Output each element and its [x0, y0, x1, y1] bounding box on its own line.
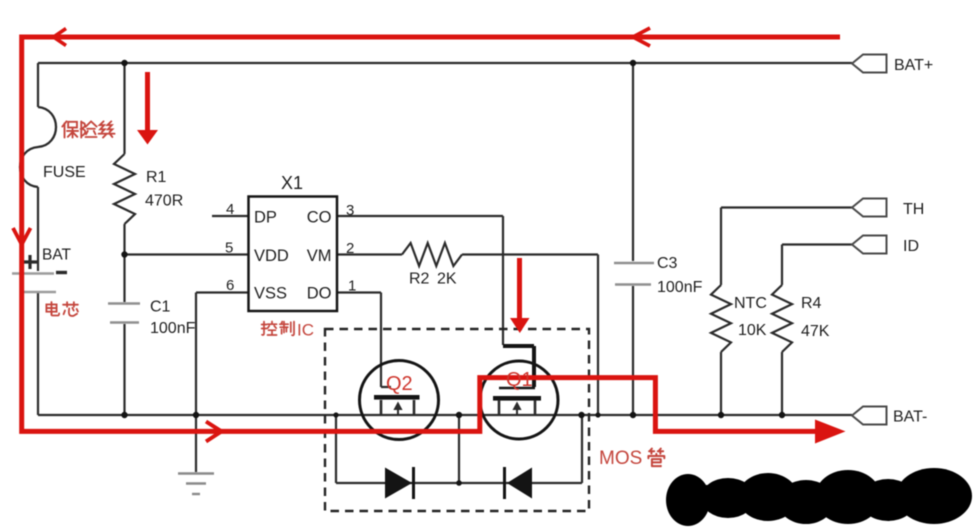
wire ID line — [782, 245, 852, 286]
wire DO pin1 to Q2 gate — [337, 293, 391, 388]
wire bottom rail BAT- — [38, 414, 852, 416]
svg-text:47K: 47K — [801, 323, 830, 340]
svg-text:6: 6 — [226, 277, 234, 294]
fuse F1 — [20, 107, 56, 187]
svg-text:ID: ID — [903, 238, 919, 255]
CJK char Xian (of 保险丝) — [81, 121, 96, 137]
svg-text:2: 2 — [346, 240, 354, 257]
svg-text:X1: X1 — [281, 173, 303, 193]
CJK char Bao (of 保险丝) — [62, 121, 78, 137]
transistor Q1 internals — [493, 388, 541, 416]
transistor Q1 circle — [480, 361, 558, 439]
resistor R1 — [114, 154, 135, 224]
svg-text:C1: C1 — [150, 299, 171, 316]
svg-text:BAT+: BAT+ — [894, 57, 933, 74]
svg-text:3: 3 — [346, 202, 354, 219]
svg-text:TH: TH — [903, 201, 924, 218]
wire diode bridge left branch — [335, 415, 337, 483]
wire DP pin4 stub — [212, 215, 248, 217]
wire C1 bottom lead — [123, 324, 125, 415]
resistor R4 — [772, 285, 792, 352]
op-amp / control IC U1 box X1 — [249, 197, 338, 312]
wire R2 to VM vertical — [462, 255, 598, 416]
transistor Q2 internals — [374, 395, 420, 416]
svg-text:5: 5 — [225, 240, 233, 257]
red chevron arrow top-mid — [633, 28, 650, 46]
svg-text:10K: 10K — [738, 322, 767, 339]
wire VSS pin6 — [196, 293, 248, 473]
svg-text:Q2: Q2 — [386, 373, 413, 395]
wire top rail BAT+ — [38, 62, 852, 64]
CJK char Xin (of 电芯) — [63, 302, 78, 316]
CJK char Kong (of 控制IC) — [262, 322, 277, 336]
wire VDD pin5 — [125, 253, 249, 255]
CJK char Guan (of MOS管) — [648, 449, 664, 467]
svg-text:BAT-: BAT- — [893, 409, 927, 426]
wire VM pin2 to R2 — [337, 253, 402, 255]
svg-text:470R: 470R — [145, 193, 183, 210]
battery plus sign — [23, 255, 37, 269]
capacitor C3 — [614, 263, 654, 285]
CJK char Zhi (of 控制IC) — [280, 322, 294, 336]
battery minus sign — [56, 271, 67, 274]
svg-text:FUSE: FUSE — [43, 164, 86, 181]
connector ID — [852, 236, 887, 254]
svg-text:R2: R2 — [409, 271, 430, 288]
wire NTC bottom — [720, 352, 722, 415]
svg-text:100nF: 100nF — [657, 279, 703, 296]
svg-text:Q1: Q1 — [506, 369, 533, 391]
diode D1 (under Q1) — [505, 467, 533, 499]
capacitor C1 — [108, 304, 140, 323]
transistor Q1 gate lead (thick) — [503, 346, 534, 387]
CJK char Dian (of 电芯) — [46, 302, 59, 315]
dashed MOSFET box — [325, 329, 589, 511]
red chevron arrow bottom-right-facing — [206, 422, 222, 442]
red arrow at R1 — [137, 72, 158, 145]
CJK char Si (of 保险丝) — [99, 121, 115, 137]
red current path (charge loop) — [22, 37, 840, 431]
svg-text:R4: R4 — [801, 295, 822, 312]
svg-text:NTC: NTC — [734, 295, 767, 312]
battery cell BAT plates — [12, 274, 56, 293]
diode D2 (under Q2) — [385, 467, 414, 499]
resistor R2 — [402, 243, 462, 266]
svg-text:MOS: MOS — [599, 448, 642, 469]
svg-text:4: 4 — [226, 201, 234, 218]
wire diode bridge right branch — [581, 415, 583, 483]
red arrow at Q1 — [510, 258, 530, 333]
svg-text:R1: R1 — [146, 169, 167, 186]
wire fuse top lead — [37, 63, 39, 107]
thermistor NTC — [711, 285, 731, 352]
wire C3 branch — [632, 63, 634, 415]
svg-text:2K: 2K — [437, 271, 457, 288]
svg-text:CO: CO — [307, 209, 332, 227]
ground — [178, 474, 214, 495]
svg-text:BAT: BAT — [42, 247, 72, 264]
wire R1 bottom to VDD node — [123, 224, 125, 302]
connector BAT+ — [852, 55, 887, 73]
red solid arrowhead at BAT- end — [815, 420, 846, 444]
wire fuse to battery — [37, 187, 39, 271]
wire battery to bottom rail — [37, 293, 39, 415]
svg-text:C3: C3 — [657, 255, 678, 272]
svg-text:IC: IC — [297, 321, 314, 340]
red chevron arrow left-down — [13, 228, 31, 245]
wire TH line — [721, 208, 852, 286]
wire R1 top lead — [123, 63, 125, 154]
connector TH — [852, 199, 887, 217]
svg-text:DP: DP — [254, 209, 277, 227]
transistor Q2 circle — [360, 361, 439, 440]
wire diode row — [336, 482, 582, 484]
wire R4 bottom — [781, 352, 783, 415]
wire CO pin3 — [337, 216, 503, 345]
svg-text:VSS: VSS — [254, 285, 287, 303]
connector BAT- — [852, 407, 887, 425]
svg-text:1: 1 — [348, 278, 356, 295]
svg-text:VDD: VDD — [254, 247, 289, 265]
svg-text:100nF: 100nF — [150, 320, 196, 337]
wire diode bridge middle branch — [458, 415, 460, 483]
black scribble redaction — [666, 468, 972, 526]
svg-text:VM: VM — [307, 247, 332, 265]
red chevron arrow top-left — [54, 29, 67, 46]
svg-text:DO: DO — [307, 285, 332, 303]
